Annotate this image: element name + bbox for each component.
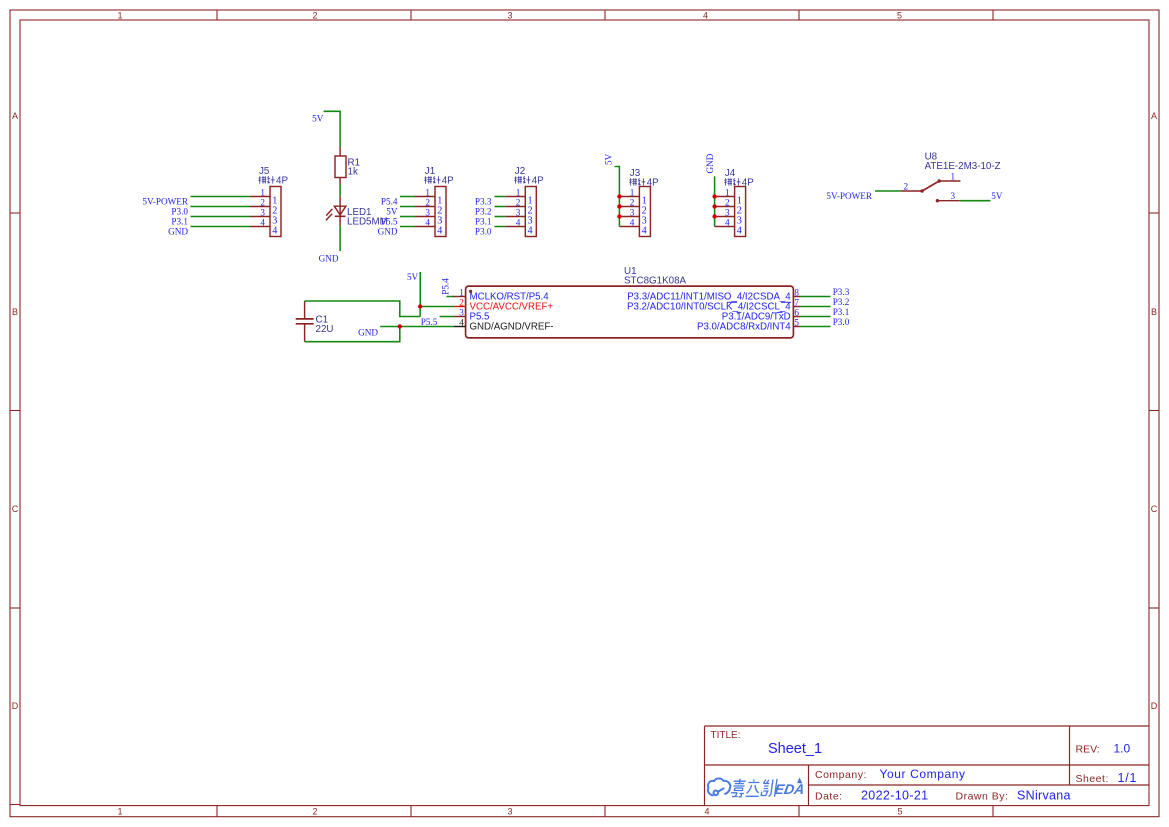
J1 pins (415, 197, 435, 227)
svg-text:P3.2: P3.2 (833, 297, 850, 307)
ground net GND (J4) (705, 153, 715, 173)
svg-text:4: 4 (272, 225, 277, 236)
svg-text:P3.1: P3.1 (475, 216, 492, 226)
U8 pin 2 (901, 190, 922, 192)
U1 pin 6 stub (793, 316, 800, 318)
U1 designator (624, 266, 637, 277)
J5 body (270, 187, 281, 237)
svg-text:P5.4: P5.4 (440, 278, 450, 295)
U8 designator (925, 152, 938, 163)
connector J1 (415, 166, 454, 236)
border column ticks top (217, 10, 993, 20)
J1 designator (425, 166, 435, 177)
svg-text:P3.1: P3.1 (833, 307, 850, 317)
svg-text:B: B (12, 307, 18, 317)
wire J2 pin4 (495, 226, 506, 228)
J5 pins (250, 197, 270, 227)
svg-text:P5.5: P5.5 (421, 317, 438, 327)
svg-text:Sheet:: Sheet: (1076, 773, 1109, 785)
title block REV label (1076, 744, 1100, 756)
svg-text:GND: GND (358, 328, 378, 338)
title block REV value (1114, 742, 1131, 756)
svg-text:3: 3 (260, 207, 265, 217)
svg-text:P3.2: P3.2 (475, 206, 492, 216)
connector J4 (715, 168, 755, 237)
U1 value STC8G1K08A (624, 276, 687, 287)
J5 pin numbers inside (272, 195, 277, 236)
svg-text:5V: 5V (991, 191, 1003, 201)
logo pen nib on A (797, 778, 803, 784)
R1 value 1k (348, 167, 358, 178)
logo text EDA (774, 781, 806, 797)
svg-text:Your Company: Your Company (880, 767, 966, 781)
wire GND to U1 pin4 (380, 326, 454, 328)
J1 pin numbers inside (437, 195, 442, 236)
capacitor C1 (296, 301, 314, 342)
wire GND bus J4 (714, 176, 716, 226)
svg-text:ATE1E-2M3-10-Z: ATE1E-2M3-10-Z (925, 161, 1001, 172)
junction J3 pin1 (617, 194, 621, 198)
svg-text:A: A (1151, 111, 1157, 121)
svg-text:P3.0: P3.0 (171, 206, 188, 216)
svg-text:5V-POWER: 5V-POWER (142, 196, 188, 206)
J3 body (639, 187, 650, 237)
border column ticks bottom (217, 806, 993, 817)
junction GND / pin4 (398, 324, 402, 328)
net label 5V-POWER (142, 196, 188, 206)
net label P3.2 (J2) (475, 206, 492, 216)
J3 designator (630, 168, 641, 179)
wire U1 pin6 (800, 316, 831, 318)
J4 pin numbers outside (725, 187, 730, 227)
title block Company label (815, 769, 867, 781)
border column labels top (117, 10, 902, 20)
svg-text:2: 2 (725, 197, 730, 207)
U8 pin 3 (937, 200, 959, 202)
svg-text:SNirvana: SNirvana (1017, 789, 1071, 803)
svg-text:2: 2 (630, 197, 635, 207)
J1 body (435, 187, 446, 237)
U1 pin 7 number (794, 298, 799, 308)
svg-text:1.0: 1.0 (1114, 742, 1131, 756)
svg-text:1: 1 (117, 807, 122, 817)
U1 pin 4 number (459, 318, 464, 328)
J3 value 排针4P (629, 178, 659, 189)
U1 pin 2 number (459, 298, 464, 308)
svg-text:4: 4 (737, 225, 742, 236)
logo cloud icon (708, 778, 730, 795)
svg-text:1: 1 (459, 288, 464, 298)
J2 body (525, 187, 536, 237)
border row labels left (12, 111, 19, 711)
net label P5.4 (J1) (381, 196, 398, 206)
border row labels right (1151, 111, 1158, 711)
wire 5V to U1 pin2 (420, 306, 454, 308)
resistor R1 (335, 147, 346, 184)
net label P3.1 (U1) (833, 307, 850, 317)
title block Date label (815, 791, 843, 803)
J4 body (735, 187, 746, 237)
U8 contact dot pin1 (938, 179, 941, 182)
junction J4 pin2 (712, 204, 716, 208)
net label P3.0 (J2) (475, 226, 492, 236)
svg-text:1k: 1k (348, 167, 358, 178)
U1 pin 7 stub (793, 306, 800, 308)
wire R1 to LED1 (339, 185, 341, 197)
svg-text:5V: 5V (604, 153, 614, 165)
connector J5 (250, 166, 288, 236)
ground net GND (LED) (319, 254, 339, 264)
U1 pin1 marker dot (469, 290, 472, 293)
U8 contact dot pin3 (936, 199, 939, 202)
svg-text:GND: GND (168, 226, 188, 236)
J4 pin numbers inside (737, 195, 742, 236)
svg-text:5V: 5V (407, 272, 419, 282)
U1 pin 3 stub (454, 316, 466, 318)
J1 pin numbers outside (425, 187, 430, 227)
svg-text:3: 3 (425, 207, 430, 217)
net label P5.5 (U1) (421, 317, 438, 327)
net label P3.0 (U1) (833, 317, 850, 327)
U1 pin 6 number (794, 308, 799, 318)
wire J1 pin4 (400, 226, 415, 228)
svg-text:1: 1 (516, 187, 521, 197)
svg-text:A: A (12, 111, 18, 121)
connector J3 (619, 168, 659, 237)
svg-text:P3.0: P3.0 (475, 226, 492, 236)
U1 pin 8 name P3.3/ADC11/INT1/MISO_4/I2CSDA_4 (627, 292, 791, 303)
wire C1 top to 5V bus (305, 301, 421, 317)
svg-text:4: 4 (630, 217, 635, 227)
U1 pin 2 name VCC/AVCC/VREF+ (470, 302, 554, 313)
svg-text:5: 5 (794, 318, 799, 328)
U1 pin 1 number (459, 288, 464, 298)
U1 pin 4 stub (454, 326, 466, 328)
title block frame (705, 726, 1150, 806)
wire C1 bottom to GND bus (305, 327, 400, 342)
svg-text:Date:: Date: (815, 791, 843, 803)
svg-text:P5.4: P5.4 (381, 196, 398, 206)
wire J1 pin3 (400, 216, 415, 218)
svg-text:4: 4 (725, 217, 730, 227)
svg-text:3: 3 (630, 207, 635, 217)
wire U8 pin3 to 5V (960, 200, 991, 202)
wire J1 pin1 (400, 196, 415, 198)
svg-text:7: 7 (794, 298, 799, 308)
svg-text:2: 2 (312, 807, 317, 817)
title block Sheet label (1076, 773, 1109, 785)
C1 designator (316, 315, 329, 326)
J5 pin numbers outside (260, 187, 265, 227)
wire U1 pin1 P5.4 (447, 296, 455, 298)
svg-text:3: 3 (725, 207, 730, 217)
svg-text:B: B (1151, 307, 1157, 317)
svg-text:5: 5 (897, 807, 902, 817)
svg-text:Sheet_1: Sheet_1 (768, 741, 822, 757)
junction J3 pin3 (617, 214, 621, 218)
junction J3 pin2 (617, 204, 621, 208)
J5 value 排针4P (259, 176, 289, 187)
svg-text:1: 1 (630, 187, 635, 197)
svg-text:4: 4 (260, 217, 265, 227)
wire 5V to R1 (324, 111, 341, 147)
net label P5.4 (U1) (440, 278, 450, 295)
svg-text:5: 5 (897, 10, 902, 20)
svg-text:P3.0: P3.0 (833, 317, 850, 327)
svg-text:4: 4 (516, 217, 521, 227)
svg-text:P3.3: P3.3 (833, 287, 850, 297)
svg-text:D: D (12, 701, 19, 711)
wire U1 pin7 (800, 306, 831, 308)
svg-text:8: 8 (794, 288, 799, 298)
power net 5V (U1) (407, 272, 419, 282)
wire U1 pin3 P5.5 (440, 316, 454, 318)
svg-text:2: 2 (312, 10, 317, 20)
svg-text:4: 4 (703, 10, 708, 20)
U1 pin 1 stub (453, 296, 466, 298)
U1 pin 5 number (794, 318, 799, 328)
wire 5V vertical (U1) (419, 272, 421, 317)
J4 pins (715, 197, 735, 227)
title block Drawn By label (956, 791, 1009, 803)
wire J2 pin2 (495, 206, 506, 208)
LED1 value LED5MM (347, 217, 388, 228)
title block Company value (880, 767, 966, 781)
U1 pin 5 stub (793, 326, 800, 328)
svg-text:2022-10-21: 2022-10-21 (861, 789, 928, 803)
net label GND (J1) (378, 226, 398, 236)
svg-text:Drawn By:: Drawn By: (956, 791, 1009, 803)
J2 designator (515, 166, 525, 177)
svg-text:1/1: 1/1 (1118, 771, 1138, 785)
wire J5 pin2 (191, 206, 251, 208)
net label P3.0 (171, 206, 188, 216)
net label P3.3 (U1) (833, 287, 850, 297)
svg-text:P3.1: P3.1 (171, 216, 188, 226)
svg-text:C: C (12, 504, 19, 514)
power net 5V (U8) (991, 191, 1003, 201)
svg-text:D: D (1151, 701, 1158, 711)
svg-text:22U: 22U (316, 324, 334, 335)
J3 pin numbers outside (630, 187, 635, 227)
wire J5 pin4 (191, 226, 251, 228)
wire J1 pin2 (400, 206, 415, 208)
svg-text:J1: J1 (425, 166, 435, 177)
J2 pin numbers inside (528, 195, 533, 236)
U1 pin 2 stub (454, 306, 466, 308)
U1 pin 8 number (794, 288, 799, 298)
LED1 designator (347, 207, 372, 218)
title block Sheet value (1118, 771, 1138, 785)
title block sheet name value (768, 741, 822, 757)
svg-text:4: 4 (704, 807, 709, 817)
svg-text:GND: GND (378, 226, 398, 236)
border row ticks right (1149, 213, 1159, 608)
wire J2 pin3 (495, 216, 506, 218)
wire 5V bus J3 (615, 167, 620, 227)
svg-text:5V: 5V (312, 113, 324, 123)
U8 pin 1 (939, 180, 960, 182)
J5 designator (259, 166, 270, 177)
wire U8 pin2 to 5V-POWER (875, 190, 901, 192)
R1 designator (348, 157, 361, 168)
svg-text:P3.3: P3.3 (475, 196, 492, 206)
wire LED1 to GND (339, 226, 341, 251)
svg-text:Company:: Company: (815, 769, 867, 781)
svg-text:4: 4 (528, 225, 533, 236)
svg-text:REV:: REV: (1076, 744, 1100, 756)
C1 value 22U (316, 324, 334, 335)
svg-text:2: 2 (516, 197, 521, 207)
logo text 嘉立创 (731, 779, 778, 797)
U8 pin 1 number (951, 172, 956, 182)
svg-text:3: 3 (459, 308, 464, 318)
net label 5V (J1) (386, 206, 398, 216)
wire U1 pin8 (800, 296, 831, 298)
U1 body (466, 286, 794, 338)
IC U1 (453, 266, 800, 338)
U1 pin 7 name P3.2/ADC10/INT0/SCLK_4/I2CSCL_4 (627, 302, 791, 313)
svg-text:4: 4 (425, 217, 430, 227)
svg-text:J5: J5 (259, 166, 270, 177)
svg-text:2: 2 (260, 197, 265, 207)
svg-text:STC8G1K08A: STC8G1K08A (624, 276, 687, 287)
junction J4 pin3 (712, 214, 716, 218)
svg-text:3: 3 (507, 10, 512, 20)
U1 pin 4 name GND/AGND/VREF- (470, 322, 554, 333)
U1 pin 6 name P3.1/ADC9/TxD (722, 312, 791, 323)
junction 5V / pin2 (418, 304, 422, 308)
border row ticks left (10, 213, 20, 805)
svg-text:1: 1 (951, 172, 956, 182)
svg-text:J3: J3 (630, 168, 641, 179)
J4 designator (725, 168, 736, 179)
svg-text:GND: GND (319, 254, 339, 264)
power net 5V (R1 top) (312, 113, 324, 123)
J3 pin numbers inside (642, 195, 647, 236)
U1 pin 3 name P5.5 (470, 312, 490, 323)
power net 5V (J3) (604, 153, 614, 165)
svg-text:GND: GND (705, 153, 715, 173)
junction J4 pin1 (712, 194, 716, 198)
ground net GND (C1) (358, 328, 378, 338)
svg-text:P3.0/ADC8/RxD/INT4: P3.0/ADC8/RxD/INT4 (697, 322, 791, 333)
border column labels bottom (117, 807, 902, 817)
LED LED1 (326, 197, 346, 226)
svg-text:4: 4 (459, 318, 464, 328)
net label P3.1 (171, 216, 188, 226)
net label P3.3 (J2) (475, 196, 492, 206)
U1 pin 5 name P3.0/ADC8/RxD/INT4 (697, 322, 791, 333)
svg-text:6: 6 (794, 308, 799, 318)
U1 pin 1 name MCLKO/RST/P5.4 (470, 292, 550, 303)
svg-text:GND/AGND/VREF-: GND/AGND/VREF- (470, 322, 554, 333)
svg-text:5V-POWER: 5V-POWER (826, 191, 872, 201)
title block TITLE label (711, 730, 741, 741)
title block Drawn By value (1017, 789, 1071, 803)
J2 value 排针4P (514, 176, 544, 187)
net label 5V-POWER (U8) (826, 191, 872, 201)
J4 value 排针4P (724, 178, 754, 189)
svg-text:2: 2 (425, 197, 430, 207)
U1 pin 3 number (459, 308, 464, 318)
U8 pin 2 number (904, 182, 909, 192)
svg-text:C: C (1151, 504, 1158, 514)
svg-text:4: 4 (437, 225, 442, 236)
svg-text:5V: 5V (386, 206, 398, 216)
U8 lever (922, 181, 939, 191)
svg-text:3: 3 (516, 207, 521, 217)
J3 pins (619, 197, 639, 227)
U8 value ATE1E-2M3-10-Z (925, 161, 1001, 172)
wire J2 pin1 (495, 196, 506, 198)
svg-text:1: 1 (260, 187, 265, 197)
svg-text:P5.5: P5.5 (381, 216, 398, 226)
svg-text:J4: J4 (725, 168, 736, 179)
switch U8 (901, 152, 1001, 203)
net label P3.2 (U1) (833, 297, 850, 307)
net label P5.5 (J1) (381, 216, 398, 226)
J1 value 排针4P (424, 176, 454, 187)
wire U1 pin5 (800, 326, 831, 328)
wire J5 pin3 (191, 216, 251, 218)
net label GND (J5) (168, 226, 188, 236)
wire J5 pin1 (191, 196, 251, 198)
U1 pin 8 stub (793, 296, 800, 298)
U8 contact dot pin2 (920, 189, 923, 192)
svg-text:1: 1 (117, 10, 122, 20)
svg-text:3: 3 (951, 191, 956, 201)
svg-text:2: 2 (459, 298, 464, 308)
J2 pins (505, 197, 525, 227)
svg-text:TITLE:: TITLE: (711, 730, 741, 741)
J2 pin numbers outside (516, 187, 521, 227)
title block Date value (861, 789, 928, 803)
svg-text:J2: J2 (515, 166, 525, 177)
connector J2 (505, 166, 544, 236)
net label P3.1 (J2) (475, 216, 492, 226)
U8 pin 3 number (951, 191, 956, 201)
svg-text:2: 2 (904, 182, 909, 192)
svg-text:1: 1 (725, 187, 730, 197)
svg-text:3: 3 (507, 807, 512, 817)
svg-text:4: 4 (642, 225, 647, 236)
svg-text:1: 1 (425, 187, 430, 197)
